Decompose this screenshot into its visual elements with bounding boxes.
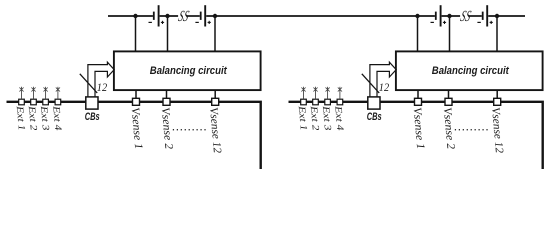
svg-text:Ext 3: Ext 3 (38, 104, 51, 131)
svg-text:Vsense 1: Vsense 1 (129, 107, 145, 150)
svg-text:CBs: CBs (85, 111, 100, 123)
svg-text:Balancing circuit: Balancing circuit (150, 65, 228, 77)
svg-text:Ext 3: Ext 3 (320, 104, 333, 131)
svg-text:Vsense 12: Vsense 12 (207, 107, 223, 154)
svg-text:Balancing circuit: Balancing circuit (432, 65, 510, 77)
svg-text:Ext 4: Ext 4 (50, 104, 63, 131)
svg-text:Vsense 2: Vsense 2 (441, 107, 457, 150)
svg-text:Ext 1: Ext 1 (296, 104, 309, 131)
svg-text:Ext 2: Ext 2 (308, 104, 321, 131)
svg-text:Ext 2: Ext 2 (26, 104, 39, 131)
svg-text:12: 12 (379, 82, 390, 94)
svg-text:CBs: CBs (367, 111, 382, 123)
svg-text:Ext 4: Ext 4 (332, 104, 345, 131)
svg-text:Vsense 1: Vsense 1 (411, 107, 427, 150)
svg-text:Vsense 2: Vsense 2 (159, 107, 175, 150)
svg-text:12: 12 (97, 82, 108, 94)
svg-text:Ext 1: Ext 1 (14, 104, 27, 131)
svg-text:Vsense 12: Vsense 12 (489, 107, 505, 154)
